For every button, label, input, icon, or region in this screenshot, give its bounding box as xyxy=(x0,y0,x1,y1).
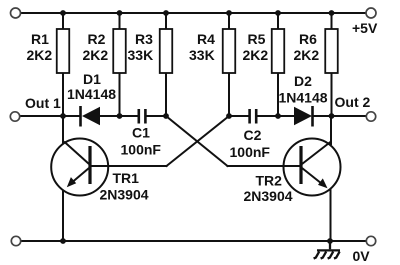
svg-text:2N3904: 2N3904 xyxy=(244,188,293,204)
svg-text:33K: 33K xyxy=(189,47,215,63)
svg-text:100nF: 100nF xyxy=(121,142,162,158)
svg-text:2K2: 2K2 xyxy=(243,47,269,63)
svg-text:0V: 0V xyxy=(353,248,371,264)
svg-text:R6: R6 xyxy=(299,31,317,47)
svg-text:TR2: TR2 xyxy=(256,173,283,189)
svg-text:D2: D2 xyxy=(294,73,312,89)
svg-text:C2: C2 xyxy=(244,127,262,143)
svg-text:R4: R4 xyxy=(197,31,215,47)
svg-text:2K2: 2K2 xyxy=(294,47,320,63)
svg-text:Out 1: Out 1 xyxy=(25,95,61,111)
svg-text:2K2: 2K2 xyxy=(27,47,53,63)
svg-text:R1: R1 xyxy=(31,31,49,47)
svg-text:2N3904: 2N3904 xyxy=(100,187,149,203)
svg-text:D1: D1 xyxy=(83,71,101,87)
svg-text:2K2: 2K2 xyxy=(83,47,109,63)
svg-text:TR1: TR1 xyxy=(113,170,140,186)
svg-text:100nF: 100nF xyxy=(230,144,271,160)
svg-text:R3: R3 xyxy=(135,31,153,47)
svg-text:R5: R5 xyxy=(248,31,266,47)
svg-text:33K: 33K xyxy=(128,47,154,63)
svg-text:1N4148: 1N4148 xyxy=(67,86,116,102)
svg-text:1N4148: 1N4148 xyxy=(279,90,328,106)
svg-text:Out 2: Out 2 xyxy=(335,94,371,110)
svg-text:+5V: +5V xyxy=(352,20,378,36)
svg-text:R2: R2 xyxy=(88,31,106,47)
svg-text:C1: C1 xyxy=(132,125,150,141)
